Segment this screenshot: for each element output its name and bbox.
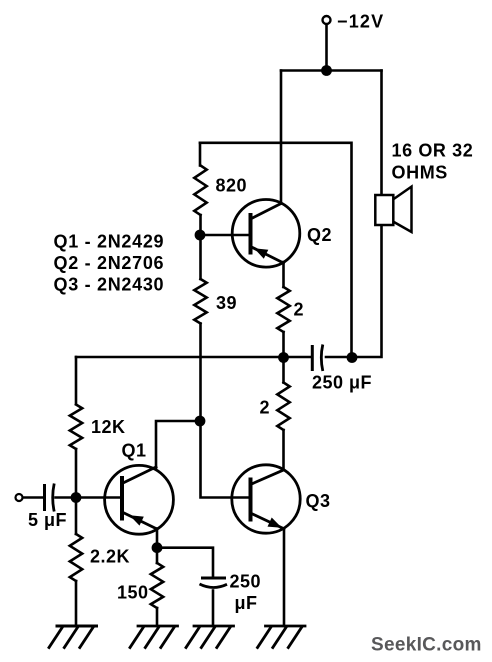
svg-text:2: 2 (294, 300, 305, 320)
svg-text:820: 820 (216, 176, 248, 196)
svg-text:250: 250 (230, 572, 262, 592)
svg-text:39: 39 (216, 293, 237, 313)
svg-text:12K: 12K (91, 417, 126, 437)
svg-text:Q1: Q1 (122, 441, 147, 461)
svg-text:5 μF: 5 μF (28, 510, 67, 530)
svg-text:2.2K: 2.2K (90, 547, 130, 567)
svg-text:OHMS: OHMS (392, 162, 448, 182)
svg-text:−12V: −12V (337, 12, 384, 32)
svg-text:Q2 - 2N2706: Q2 - 2N2706 (54, 253, 165, 273)
svg-text:Q2: Q2 (307, 225, 332, 245)
svg-text:μF: μF (235, 593, 258, 613)
svg-text:Q3: Q3 (306, 491, 331, 511)
svg-text:Q3 - 2N2430: Q3 - 2N2430 (54, 274, 165, 294)
svg-text:Q1 - 2N2429: Q1 - 2N2429 (54, 232, 165, 252)
svg-text:150: 150 (117, 583, 149, 603)
svg-text:250 μF: 250 μF (312, 373, 372, 393)
svg-text:SeekIC.com: SeekIC.com (371, 635, 482, 656)
svg-text:16 OR 32: 16 OR 32 (392, 141, 474, 161)
svg-text:2: 2 (260, 398, 271, 418)
